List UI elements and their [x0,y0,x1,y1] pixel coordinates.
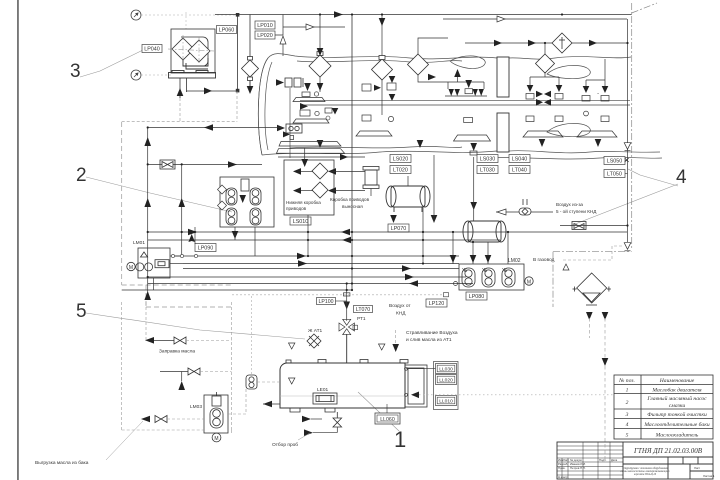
svg-text:LM02: LM02 [508,258,521,264]
callout 5 [76,301,305,339]
arrows cluster B [374,85,381,91]
svg-text:LS020: LS020 [393,157,409,163]
arrow into F3 [379,18,386,26]
label LT030 [477,166,498,174]
wire bus y268 [183,268,459,270]
svg-text:и слив масла из АТ1: и слив масла из АТ1 [406,337,452,343]
svg-text:1: 1 [394,427,406,452]
wire fill line [154,340,174,342]
main oil tank [280,363,405,408]
module pipes [183,58,208,69]
svg-text:LP100: LP100 [318,299,333,305]
arrow feed turbine [428,74,436,81]
hollow arrow vent [306,24,314,30]
valve fill [174,337,186,344]
arrow row2 right [332,108,339,115]
svg-text:LP070: LP070 [391,226,407,232]
wire riser filter [249,15,251,94]
svg-text:LE01: LE01 [317,387,329,393]
svg-text:М: М [527,279,531,285]
wire y290 long [122,289,352,291]
svg-text:М: М [214,436,218,442]
svg-text:Дата: Дата [611,458,618,462]
level marks [289,343,295,349]
gauge P1 [131,10,141,20]
gauge P2 [131,70,141,80]
svg-text:5 - ой ступени КНД: 5 - ой ступени КНД [556,208,597,214]
arrows into gearbox [293,168,301,175]
cross valve [339,319,354,334]
svg-text:Выгрузка масла из бака: Выгрузка масла из бака [35,460,89,466]
arrow left unload [141,416,150,423]
svg-text:Петров П.П.: Петров П.П. [570,466,586,470]
callout 4 [570,167,687,226]
wire y127 [148,128,283,296]
node squares [236,13,240,17]
filter module LP040 box [171,29,215,73]
engine boundary dash-dot [122,122,232,307]
engine shaft band [300,100,630,105]
arrows down feeders [188,234,195,242]
callout 1 [358,392,406,452]
arrow into cluster A [276,79,284,86]
label LT050 [604,170,625,178]
callout 3 [70,50,143,82]
riser joint [344,293,350,296]
node circles [171,254,197,257]
svg-text:Н.контр.: Н.контр. [558,475,569,479]
svg-text:LP120: LP120 [429,301,445,307]
label LT070 [354,306,373,314]
svg-text:Листов 1: Листов 1 [703,474,715,478]
svg-text:Ж: Ж [502,268,507,274]
svg-text:LT030: LT030 [480,168,495,174]
arrow up x181 [178,198,185,207]
arrow up feed [177,88,184,96]
svg-text:LT050: LT050 [607,172,622,178]
arrow left on y127 [204,124,213,131]
svg-text:LM03: LM03 [190,404,202,410]
tray drain arrows [539,139,546,147]
check valve CV2 [519,199,531,215]
svg-text:LM01: LM01 [133,240,145,246]
svg-text:Отбор проб: Отбор проб [272,442,298,448]
pump pairs in U1 [226,179,261,225]
intake contour [258,58,272,155]
svg-text:LS030: LS030 [480,157,496,163]
svg-text:Лист: Лист [694,466,701,470]
svg-text:4: 4 [626,422,629,428]
hollow arrow up [280,36,286,44]
dashed air sense line [232,294,443,296]
stubs LS050 [625,160,628,162]
check diamonds U1 [218,185,227,210]
arrow into oo [277,125,285,132]
svg-text:LT070: LT070 [356,307,370,313]
arrow into U1 [239,195,246,203]
filter F1 [242,57,259,81]
svg-text:Коробка приводов: Коробка приводов [330,197,370,202]
module diamonds [172,38,210,62]
level gauge labels container [434,362,459,410]
svg-text:№ поз.: № поз. [618,378,635,384]
svg-text:агрегата ГПА-Ц-16: агрегата ГПА-Ц-16 [634,473,657,476]
arrow left drain [263,401,272,408]
valve X air [572,222,586,230]
trays D [523,131,617,137]
arrow on drain [602,358,609,366]
LM02 port [454,282,458,286]
pump block U1 [220,177,274,227]
air bleed line [496,211,553,213]
level gauge box right [405,365,427,407]
tank top fittings [286,360,408,364]
arrow into T2 [470,202,477,210]
motor M2 [525,277,533,285]
arrow right y164 [228,161,237,168]
LM01 box [136,248,170,278]
svg-text:LS010: LS010 [293,219,309,225]
tank T2 [463,221,506,242]
dashed verticals bottom [122,302,246,433]
arrow right base [204,88,212,95]
label LP040 [142,45,162,53]
svg-text:Стравливание Воздуха: Стравливание Воздуха [406,330,458,336]
dashed module drop [122,91,237,122]
cluster A pan [293,92,325,102]
svg-text:Ж АТ1: Ж АТ1 [308,328,323,334]
label LT020 [390,166,411,174]
svg-text:выносная: выносная [342,204,363,209]
wire motor drop [370,189,372,197]
label LL030 [436,364,457,374]
wire riser LP060 [237,15,239,92]
cluster A squares [285,78,303,87]
svg-text:Нижняя коробка: Нижняя коробка [286,200,321,205]
hollow arrow on line19 [497,16,505,22]
parts table [614,375,713,439]
wire tank riser [346,284,348,321]
label LL060 [375,413,400,424]
motor M3 [212,433,221,442]
wire F4 riser [418,38,448,54]
arrows on line43 [494,40,502,47]
svg-text:3: 3 [625,412,629,418]
tank bottom fittings [290,408,335,412]
unload valve [155,416,167,423]
arrows into LM02 [450,255,457,263]
label LP010 [255,21,275,29]
svg-text:Заправка масла: Заправка масла [159,349,195,355]
oil pan lower [277,149,345,154]
arrows down pair [304,83,311,91]
label LP070 [388,224,409,232]
label LP020 [255,31,275,39]
label LP100 [317,298,336,306]
oil cooler AT [573,273,611,305]
junction x627 [625,158,629,162]
svg-text:LP020: LP020 [257,33,273,39]
wire bus y283 [148,283,473,285]
valve V1 [160,160,175,169]
svg-text:LP010: LP010 [257,23,273,29]
engine casing top [258,54,631,155]
callout 2 [76,165,232,212]
LM02 block [459,264,524,290]
svg-text:5: 5 [626,433,629,439]
wire T1 connections [408,155,434,264]
combustor tall rect pair B [497,57,509,152]
vertical feeders [195,215,508,264]
svg-text:М: М [129,265,133,271]
module base tray [169,71,216,79]
svg-text:3: 3 [70,61,81,82]
text air from 5th stage [556,202,597,214]
gearbox diamonds [312,163,328,198]
wire bus y240 [148,239,500,241]
arrows cluster D [527,85,534,92]
svg-text:Ж: Ж [482,268,487,274]
wire LM01 out [154,256,184,290]
svg-text:LT040: LT040 [512,168,527,174]
gauge sense dashed lines [141,12,237,75]
dashed drain lines [589,318,605,460]
arrows up x147 [144,137,151,146]
cross arrows center [536,91,543,98]
svg-text:Маслоотделительные баки: Маслоотделительные баки [643,421,710,428]
valve mid [188,368,200,375]
arrows cluster C [454,69,461,77]
svg-text:Главный масляный насос: Главный масляный насос [646,395,707,402]
svg-text:LT020: LT020 [393,168,408,174]
text lower gearbox [286,200,321,211]
text external gearbox [330,197,370,209]
wire vent to gazovod [563,246,623,260]
filter F4 [408,54,429,75]
LM02 units [462,268,515,287]
svg-text:КНД: КНД [396,311,406,317]
Ж marks [462,268,507,274]
filter F3 [372,15,393,81]
cluster A2 row2 [293,108,332,123]
dashed fill line to flange [250,296,252,374]
svg-text:LP060: LP060 [219,28,235,34]
arrow into gauge [411,392,419,399]
sheet frame left line [17,0,19,480]
check valve CV1 [552,33,572,53]
oo drain fitting [283,131,290,137]
svg-text:Воздух из-за: Воздух из-за [556,202,583,207]
wire sense line [406,368,437,370]
arrow down x250 [247,86,254,94]
svg-text:Фильтр тонкой очистки: Фильтр тонкой очистки [647,411,707,418]
svg-text:Маслоохладитель: Маслоохладитель [655,432,699,439]
svg-text:1: 1 [626,388,629,394]
label LP120 [426,299,447,307]
sample arrows [302,416,311,423]
svg-text:5: 5 [76,301,87,322]
svg-text:LL030: LL030 [439,367,453,373]
svg-text:В газовод: В газовод [533,257,555,263]
oil pan upper [279,142,341,147]
cooler drain arrows [586,312,593,320]
label LP080 [466,292,487,300]
wire bus y277 [148,276,466,278]
svg-text:LP090: LP090 [198,246,214,252]
scavenge drop wire [289,88,291,158]
gearbox box [284,160,334,215]
wire top bus [215,14,632,16]
filter F2 [309,15,331,78]
wire main riser x352 [351,15,353,291]
arrow left fill [145,337,154,344]
svg-text:LL060: LL060 [380,417,395,423]
label LP060 [217,26,237,34]
svg-text:ГТНЯ ДП 21.02.03.00В: ГТНЯ ДП 21.02.03.00В [633,447,703,455]
title block [557,442,713,479]
label LS040 [509,155,530,163]
arrows on buses [341,229,350,236]
wire hp air line [443,19,628,242]
svg-text:4: 4 [676,167,687,188]
arrow down at tank [392,344,399,352]
combustor S-contours right [450,56,590,137]
small valve box oo [286,124,302,133]
text strav [406,330,458,343]
tank T1 [386,186,430,212]
svg-text:приводов: приводов [286,206,307,211]
svg-text:Пров.: Пров. [558,466,566,470]
wires cluster D feeds [530,59,605,90]
svg-text:2: 2 [76,165,87,186]
wire flange [257,381,280,383]
label LS020 [390,155,411,163]
label LS050 [604,157,625,165]
wire bus y232 [148,231,627,233]
svg-text:LP040: LP040 [144,47,160,53]
wire bus y256 [173,255,459,257]
svg-text:2: 2 [626,400,629,406]
svg-text:Ж: Ж [462,268,467,274]
drain valve under tank [333,412,342,427]
label LL010 [436,396,457,406]
wire module to bus [180,78,238,98]
wire LP020 drop [275,15,345,36]
filter stubs [320,75,448,115]
filter F5 [536,43,555,73]
svg-text:LS050: LS050 [607,159,623,165]
svg-text:Воздух от: Воздух от [389,303,411,309]
motor M LM01 [127,262,135,270]
vent symbol lower [624,243,631,250]
flange left [246,375,257,389]
motor M1 [363,167,379,189]
arrow up [178,381,185,390]
svg-text:LL010: LL010 [439,399,453,405]
engine casing bottom [262,146,662,159]
svg-text:РТ1: РТ1 [357,316,366,322]
svg-text:Подп.: Подп. [599,458,607,462]
label LP090 [195,244,216,252]
arrow on top bus [334,11,343,18]
LE01 heater [313,393,337,404]
label LS030 [477,155,498,163]
wire bus y263 [183,263,459,265]
label LS010 [290,217,311,225]
vent mark upper [624,143,631,150]
wire x250 drop to y164 [249,81,251,93]
cluster B squares [356,83,396,136]
svg-text:LS040: LS040 [512,157,528,163]
label LT040 [509,166,530,174]
label LL020 [436,375,457,385]
arrow into F2 [317,48,324,56]
hollow arrow air [497,209,506,215]
svg-text:LL020: LL020 [439,378,453,384]
ZHAT1 device [307,334,321,348]
svg-text:Наименование: Наименование [659,378,695,384]
svg-text:Маслобак двигателя: Маслобак двигателя [651,387,702,394]
cluster D bearings right [526,94,609,122]
arrows under T1 [390,215,397,223]
cluster C turbine bearings [445,76,491,155]
svg-text:LP080: LP080 [469,294,485,300]
hollow triangle [563,264,569,270]
svg-text:смазки: смазки [669,403,686,409]
arrows right col [300,103,308,110]
wire scavenge y157 [278,156,365,158]
text vozduh ot knd [389,303,411,317]
